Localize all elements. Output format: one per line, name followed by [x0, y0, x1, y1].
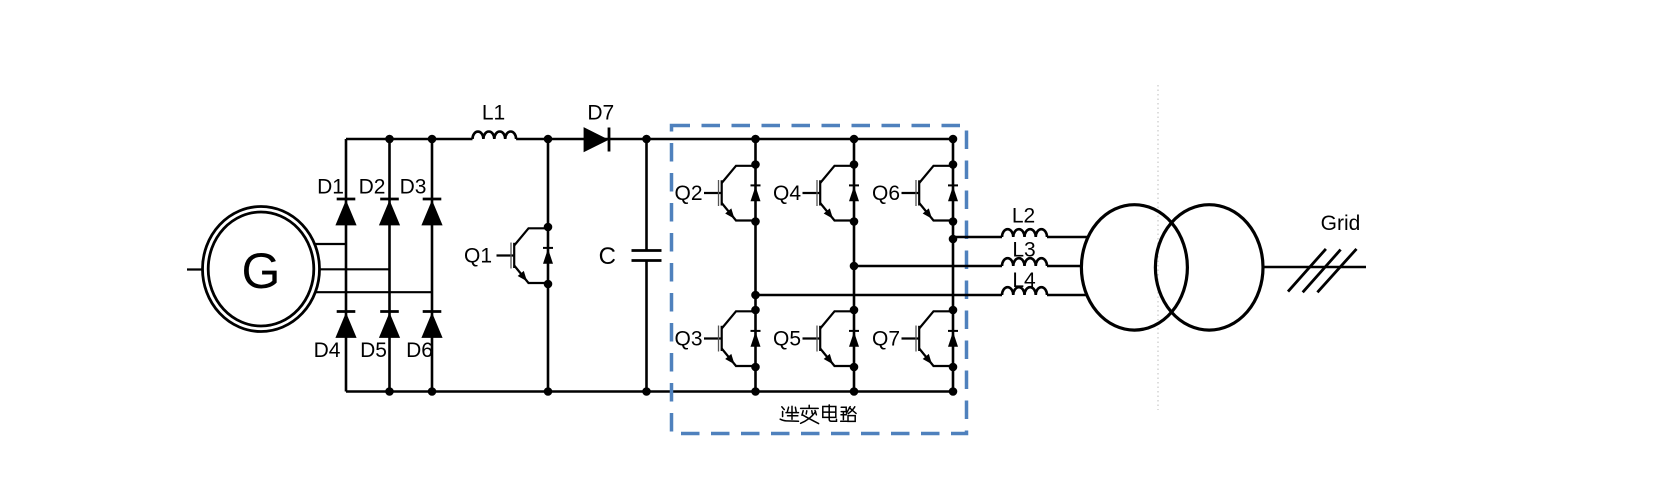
svg-text:Q3: Q3: [674, 328, 702, 351]
char 路: [841, 407, 847, 421]
junction dot bottom bus at inverter leg 2: [850, 387, 859, 396]
wire: L2 to transformer: [1047, 236, 1088, 239]
wire: phase output leg 2 to L3: [854, 265, 1002, 268]
svg-text:D5: D5: [360, 339, 387, 362]
svg-text:Q4: Q4: [773, 182, 801, 205]
transformer primary winding: [1081, 205, 1187, 330]
transistor Q7: [902, 306, 959, 372]
wire: inverter leg 2: [853, 139, 856, 392]
wire: rectifier leg 1: [345, 139, 348, 392]
junction dot top bus at rectifier leg 2: [385, 135, 394, 144]
transistor Q6: [902, 160, 959, 226]
junction dot bottom bus at inverter leg 3: [949, 387, 958, 396]
svg-text:D2: D2: [359, 176, 386, 199]
junction dot bottom bus at rectifier leg 3: [428, 387, 437, 396]
char 逆: [780, 407, 798, 422]
diode D4: [335, 312, 356, 338]
wire: transformer to grid: [1263, 266, 1366, 269]
svg-text:L2: L2: [1012, 205, 1035, 228]
inverter dashed enclosure 逆变电路: [672, 126, 967, 434]
wire: inverter leg 1: [754, 139, 757, 392]
junction dot phase tap leg 1: [751, 291, 760, 300]
junction dot phase tap leg 2: [850, 262, 859, 271]
wire: DC link capacitor leg lower: [645, 261, 648, 392]
svg-text:Q7: Q7: [872, 328, 900, 351]
transistor Q4: [803, 160, 860, 226]
svg-text:D1: D1: [317, 176, 344, 199]
svg-text:D7: D7: [587, 102, 614, 125]
svg-text:L4: L4: [1012, 269, 1036, 292]
junction dot bottom bus at boost leg: [544, 387, 553, 396]
svg-text:C: C: [599, 243, 616, 270]
wire: phase output leg 3 to L2: [953, 236, 1002, 239]
wire: top bus left section: [346, 138, 473, 141]
transistor Q3: [704, 306, 761, 372]
transformer secondary winding: [1155, 205, 1263, 330]
svg-text:Q1: Q1: [464, 245, 492, 268]
svg-text:D4: D4: [314, 339, 341, 362]
svg-text:D3: D3: [400, 176, 427, 199]
diode D1: [335, 199, 356, 225]
svg-text:Q2: Q2: [674, 182, 702, 205]
diode D3: [421, 199, 442, 225]
generator G: [203, 207, 320, 332]
diode D2: [379, 199, 400, 225]
transistor Q5: [803, 306, 860, 372]
junction dot phase tap leg 3: [949, 235, 958, 244]
grid three-phase slash marks: [1288, 249, 1357, 292]
wire: L3 to transformer: [1047, 265, 1082, 268]
wire: phase C generator to rectifier leg 3: [300, 291, 432, 293]
junction dot bottom bus at capacitor: [642, 387, 651, 396]
capacitor C: [632, 251, 662, 261]
junction dot top bus at boost leg: [544, 135, 553, 144]
char 电: [823, 405, 837, 421]
wire: phase A generator to rectifier leg 1: [300, 243, 346, 245]
wire: generator left stub: [187, 268, 204, 270]
wire: bottom bus: [346, 390, 953, 393]
transistor Q1: [497, 223, 554, 289]
wire: DC link capacitor leg upper: [645, 139, 648, 251]
svg-text:Grid: Grid: [1321, 212, 1361, 235]
svg-text:G: G: [242, 243, 281, 299]
inductor L1: [473, 132, 517, 139]
junction dot top bus at inverter leg 1: [751, 135, 760, 144]
svg-text:Q5: Q5: [773, 328, 801, 351]
wire: inverter leg 3: [952, 139, 955, 392]
wire: rectifier leg 3: [431, 139, 434, 392]
diode D5: [379, 312, 400, 338]
junction dot bottom bus at inverter leg 1: [751, 387, 760, 396]
junction dot top bus at rectifier leg 3: [428, 135, 437, 144]
faint page guide dotted line: [1157, 85, 1159, 410]
wire: top bus right section: [516, 138, 953, 141]
wire: L4 to transformer: [1047, 294, 1087, 297]
svg-text:Q6: Q6: [872, 182, 900, 205]
svg-text:D6: D6: [406, 339, 433, 362]
svg-text:L3: L3: [1012, 239, 1035, 262]
junction dot top bus at capacitor: [642, 135, 651, 144]
label 逆变电路 (inverter circuit): [780, 405, 856, 424]
wire: phase output leg 1 to L4: [756, 294, 1003, 297]
diode D6: [421, 312, 442, 338]
inductor L4: [1002, 287, 1047, 295]
junction dot top bus at inverter leg 2: [850, 135, 859, 144]
wire: rectifier leg 2: [388, 139, 391, 392]
char 变: [801, 405, 819, 415]
inductor L2: [1002, 229, 1047, 237]
junction dot bottom bus at rectifier leg 2: [385, 387, 394, 396]
diode D7: [584, 127, 609, 152]
svg-text:L1: L1: [482, 102, 505, 125]
transistor Q2: [704, 160, 761, 226]
wire: boost switch leg: [547, 139, 550, 392]
inductor L3: [1002, 258, 1047, 266]
junction dot top bus at inverter leg 3: [949, 135, 958, 144]
wire: phase B generator to rectifier leg 2: [300, 268, 390, 270]
